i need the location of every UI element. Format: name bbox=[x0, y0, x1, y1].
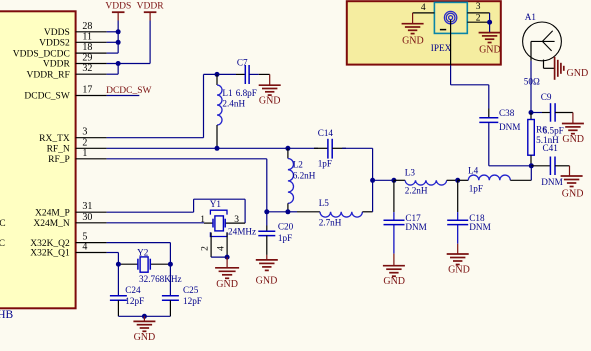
svg-text:1: 1 bbox=[200, 215, 205, 225]
svg-text:6.2nH: 6.2nH bbox=[293, 171, 316, 181]
wire X24M_N to Y1 pin1 bbox=[107, 222, 204, 224]
svg-text:GND: GND bbox=[448, 265, 470, 276]
capacitor C41 DNM bbox=[531, 143, 569, 187]
svg-text:C14: C14 bbox=[318, 128, 334, 138]
ground at C7 bbox=[259, 74, 281, 106]
pin 30 X24M_N bbox=[33, 212, 106, 229]
svg-text:VDDR: VDDR bbox=[137, 1, 165, 11]
svg-text:1pF: 1pF bbox=[278, 233, 292, 243]
pin 17 DCDC_SW bbox=[24, 85, 106, 102]
capacitor C7 bbox=[236, 57, 259, 84]
svg-text:DNM: DNM bbox=[499, 122, 520, 132]
wire to L3 bbox=[373, 179, 394, 181]
junction L2 top / RF_N bbox=[285, 146, 290, 151]
clipped left-side pin name fragment XC bbox=[0, 219, 6, 229]
connector IPEX body bbox=[431, 2, 468, 53]
junction RF_P / C20 bbox=[264, 209, 269, 214]
ground at C18 bbox=[447, 244, 470, 276]
highlight box around IPEX connector bbox=[347, 1, 501, 64]
wire VDDR bus bbox=[107, 21, 151, 75]
ground at C17 bbox=[383, 254, 405, 288]
svg-text:1: 1 bbox=[82, 148, 87, 159]
wire VDDS bus vertical bbox=[107, 21, 119, 54]
svg-text:C20: C20 bbox=[278, 221, 294, 231]
wire RF_P down to C20 row bbox=[107, 159, 288, 226]
svg-text:2.2nH: 2.2nH bbox=[405, 186, 428, 196]
svg-text:RF_P: RF_P bbox=[48, 155, 70, 165]
svg-text:4: 4 bbox=[82, 242, 87, 253]
svg-text:DNM: DNM bbox=[405, 222, 426, 232]
svg-text:Y2: Y2 bbox=[137, 248, 149, 258]
junction L2 bottom / L5 bbox=[285, 209, 290, 214]
svg-text:4: 4 bbox=[217, 246, 227, 251]
ground at Y1 case bbox=[215, 257, 239, 290]
junction pin29/pin32 bbox=[116, 61, 121, 66]
inductor L2 bbox=[288, 148, 316, 212]
wire C14 right down to L3 row bbox=[342, 148, 373, 180]
svg-text:L3: L3 bbox=[405, 167, 416, 177]
svg-text:SC: SC bbox=[0, 239, 5, 249]
capacitor C38 DNM bbox=[479, 108, 520, 132]
svg-text:R6: R6 bbox=[536, 125, 547, 135]
wire X24M_P to Y1 pin3 over the top bbox=[107, 199, 246, 223]
capacitor C25 bbox=[162, 264, 202, 316]
svg-text:L4: L4 bbox=[468, 165, 479, 175]
svg-text:31: 31 bbox=[82, 201, 92, 212]
svg-text:A1: A1 bbox=[525, 12, 537, 22]
svg-text:VDDR: VDDR bbox=[43, 60, 71, 70]
antenna A1 bbox=[523, 12, 562, 61]
wire L5 up to L3 row bbox=[372, 180, 374, 212]
junction IPEX pin2/pin3 bbox=[487, 20, 492, 25]
pin 31 X24M_P bbox=[35, 201, 107, 218]
svg-text:DNM: DNM bbox=[541, 177, 562, 187]
svg-text:2: 2 bbox=[476, 14, 481, 24]
crystal Y2 32.768KHz bbox=[118, 248, 181, 285]
junction pin11/VDDS bbox=[116, 40, 121, 45]
junction R6/C41/L4/C38 bbox=[529, 163, 534, 168]
svg-text:2.4nH: 2.4nH bbox=[222, 99, 245, 109]
svg-text:C41: C41 bbox=[543, 143, 559, 153]
junction pin28/VDDS bbox=[116, 29, 121, 34]
svg-text:L1: L1 bbox=[222, 88, 233, 98]
junction L1 bottom / RF_N bbox=[215, 146, 220, 151]
svg-text:17: 17 bbox=[82, 85, 92, 96]
wire DCDC_SW stub bbox=[107, 95, 140, 97]
power port VDDS bbox=[105, 1, 131, 20]
svg-text:X32K_Q2: X32K_Q2 bbox=[30, 239, 70, 249]
svg-text:6.8pF: 6.8pF bbox=[236, 88, 257, 98]
svg-text:DNM: DNM bbox=[469, 222, 490, 232]
svg-text:2: 2 bbox=[201, 246, 211, 251]
svg-text:1pF: 1pF bbox=[318, 159, 332, 169]
svg-text:GND: GND bbox=[383, 276, 405, 287]
svg-text:DCDC_SW: DCDC_SW bbox=[106, 86, 151, 96]
pin 3 RX_TX bbox=[39, 127, 106, 144]
svg-text:GND: GND bbox=[562, 188, 584, 199]
IC U1 body bbox=[0, 11, 76, 308]
ground at IPEX pin 4 bbox=[402, 13, 424, 47]
svg-text:VDDR_RF: VDDR_RF bbox=[27, 70, 70, 80]
svg-text:DCDC_SW: DCDC_SW bbox=[24, 92, 69, 102]
ground at C9 bbox=[562, 113, 584, 146]
svg-text:GND: GND bbox=[567, 68, 589, 79]
svg-text:32.768KHz: 32.768KHz bbox=[139, 274, 182, 284]
inductor L4 bbox=[458, 165, 532, 193]
svg-text:VDDS: VDDS bbox=[105, 1, 131, 11]
pin 4 X32K_Q1 bbox=[30, 242, 106, 259]
svg-text:GND: GND bbox=[402, 36, 424, 47]
junction Y1 case / gnd bbox=[225, 255, 230, 260]
svg-text:3: 3 bbox=[476, 2, 481, 12]
junction antenna/C9 bbox=[529, 110, 534, 115]
pin 1 RF_P bbox=[48, 148, 106, 165]
svg-text:50Ω: 50Ω bbox=[524, 76, 540, 86]
wire IPEX center pin down and over to C38 bbox=[451, 20, 489, 109]
ground at C20 bbox=[256, 255, 278, 287]
svg-text:4: 4 bbox=[421, 3, 426, 13]
wire L4 right up to C41 node bbox=[530, 166, 532, 181]
svg-text:X24M_P: X24M_P bbox=[35, 208, 70, 218]
svg-text:VDDS_DCDC: VDDS_DCDC bbox=[13, 49, 70, 59]
svg-text:X24M_N: X24M_N bbox=[33, 219, 70, 229]
wire X32K_Q1 to Y2 left bbox=[107, 253, 119, 265]
wire X32K_Q2 to Y2 right bbox=[107, 243, 171, 265]
svg-text:30: 30 bbox=[82, 212, 92, 223]
svg-text:GND: GND bbox=[562, 134, 584, 145]
svg-text:L5: L5 bbox=[319, 198, 330, 208]
pin 18 VDDS_DCDC bbox=[13, 42, 107, 59]
svg-text:GND: GND bbox=[259, 95, 281, 106]
ground at C41 bbox=[561, 166, 584, 200]
capacitor C24 bbox=[110, 264, 144, 316]
capacitor C17 DNM bbox=[384, 180, 427, 253]
junction C14/L5/L3 bbox=[370, 178, 375, 183]
ground at C24/C25 bbox=[133, 316, 155, 343]
svg-text:32: 32 bbox=[82, 63, 92, 74]
pin 29 VDDR bbox=[43, 53, 107, 70]
svg-text:VDDS2: VDDS2 bbox=[39, 39, 70, 49]
net label DCDC_SW bbox=[106, 86, 151, 96]
junction node A / L1 top bbox=[215, 72, 220, 77]
capacitor C20 bbox=[258, 221, 293, 255]
svg-text:GND: GND bbox=[479, 45, 501, 56]
svg-text:C7: C7 bbox=[237, 57, 248, 67]
svg-text:12pF: 12pF bbox=[125, 296, 144, 306]
svg-text:VDDS: VDDS bbox=[44, 28, 70, 38]
capacitor C14 bbox=[314, 128, 346, 169]
svg-text:C24: C24 bbox=[125, 285, 141, 295]
svg-text:GND: GND bbox=[134, 332, 156, 343]
junction Y2 right bbox=[168, 262, 173, 267]
inductor L3 bbox=[394, 167, 458, 195]
pin 11 VDDS2 bbox=[39, 31, 106, 48]
svg-text:Y1: Y1 bbox=[210, 199, 222, 209]
svg-text:X32K_Q1: X32K_Q1 bbox=[30, 249, 70, 259]
svg-text:GND: GND bbox=[256, 276, 278, 287]
junction C24/C25 gnd bbox=[142, 314, 147, 319]
svg-text:2: 2 bbox=[82, 137, 87, 148]
svg-text:RF_N: RF_N bbox=[47, 145, 70, 155]
svg-text:24MHz: 24MHz bbox=[228, 226, 256, 236]
svg-text:IPEX: IPEX bbox=[431, 43, 452, 53]
pin 5 X32K_Q2 bbox=[30, 232, 106, 249]
svg-text:L2: L2 bbox=[293, 159, 304, 169]
capacitor C18 DNM bbox=[447, 180, 491, 243]
power port VDDR bbox=[137, 1, 165, 20]
svg-text:2.7nH: 2.7nH bbox=[319, 218, 342, 228]
IPEX pin 2 bbox=[467, 14, 489, 24]
clipped left-side pin name fragment SC bbox=[0, 239, 5, 249]
svg-text:18: 18 bbox=[82, 42, 92, 53]
svg-text:3: 3 bbox=[82, 127, 87, 138]
pin 2 RF_N bbox=[47, 137, 107, 154]
svg-text:C9: C9 bbox=[541, 92, 552, 102]
inductor L5 bbox=[288, 198, 373, 227]
svg-text:3: 3 bbox=[234, 215, 239, 225]
capacitor C9 bbox=[531, 92, 573, 122]
wire RF_N bbox=[107, 147, 318, 149]
pin 32 VDDR_RF bbox=[27, 63, 107, 80]
svg-text:28: 28 bbox=[82, 21, 92, 32]
wire C7 to gnd bbox=[259, 73, 270, 75]
IPEX pin 3 bbox=[467, 2, 489, 13]
svg-text:XC: XC bbox=[0, 219, 6, 229]
svg-text:12pF: 12pF bbox=[183, 296, 202, 306]
junction C17 tap bbox=[391, 178, 396, 183]
junction Y2 left bbox=[116, 262, 121, 267]
IC U1 part number CC2640F128RHB (clipped at left edge) bbox=[0, 309, 14, 321]
IPEX pin 4 bbox=[413, 3, 435, 13]
inductor L1 bbox=[217, 74, 245, 148]
junction C18/L3/L4 bbox=[455, 178, 460, 183]
svg-text:C25: C25 bbox=[183, 285, 199, 295]
resistor R6 bbox=[528, 113, 559, 166]
crystal Y1 24MHz bbox=[200, 199, 256, 237]
svg-text:CC2640F128RHB: CC2640F128RHB bbox=[0, 309, 14, 321]
Y1 case pins 2 and 4 bbox=[201, 233, 228, 258]
svg-text:C38: C38 bbox=[499, 108, 515, 118]
antenna feed wire 50 ohm bbox=[524, 41, 540, 112]
ground at IPEX pin 2 bbox=[479, 22, 501, 55]
wire RX_TX up to node A bbox=[107, 74, 236, 137]
wire IPEX pin3 down to pin2 bbox=[489, 13, 491, 22]
svg-text:29: 29 bbox=[82, 53, 92, 64]
wire joining C24/C25 bottoms bbox=[118, 315, 170, 317]
svg-text:RX_TX: RX_TX bbox=[39, 134, 70, 144]
pin 28 VDDS bbox=[44, 21, 107, 38]
svg-text:11: 11 bbox=[82, 31, 92, 42]
wire C38 down to C41 node bbox=[489, 131, 532, 166]
svg-text:1pF: 1pF bbox=[469, 183, 483, 193]
ground at antenna (rotated) bbox=[544, 57, 589, 80]
svg-text:GND: GND bbox=[216, 279, 238, 290]
